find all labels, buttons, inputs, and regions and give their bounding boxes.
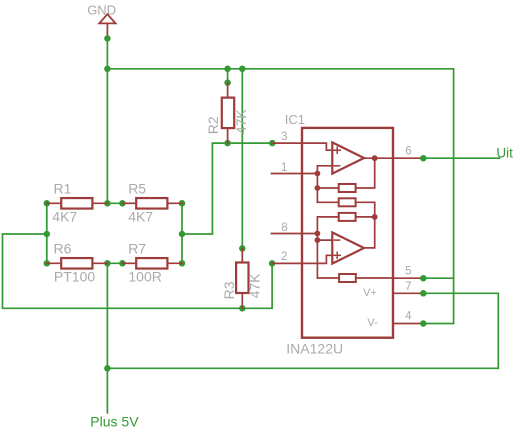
svg-text:R3: R3 xyxy=(221,281,237,299)
junction bridge top right xyxy=(179,200,186,207)
junction top rail R2 branch xyxy=(224,66,231,73)
svg-text:8: 8 xyxy=(281,222,287,234)
junction pin 7 xyxy=(420,290,427,297)
wire R2 top branch xyxy=(227,69,229,83)
junction bridge bottom mid-right xyxy=(119,260,126,267)
junction top rail left xyxy=(104,66,111,73)
wire R2 bottom to pin 3 xyxy=(228,142,273,144)
wire bridge right to pin 3 net xyxy=(182,143,228,234)
internal resistor 3 xyxy=(339,213,356,221)
svg-text:V-: V- xyxy=(367,317,378,329)
junction pin 4 xyxy=(420,320,427,327)
wire pin 6 output Uit xyxy=(423,157,499,159)
wire GND to top rail xyxy=(106,37,108,69)
resistor R3 xyxy=(221,248,262,308)
junction bridge top left xyxy=(44,200,51,207)
internal resistor 1 xyxy=(339,184,356,192)
resistor R5 xyxy=(122,181,182,225)
junction pin 2 xyxy=(269,260,276,267)
svg-text:7: 7 xyxy=(405,281,411,293)
svg-text:1: 1 xyxy=(281,162,287,174)
svg-text:4K7: 4K7 xyxy=(128,209,153,225)
junction bridge top mid-right xyxy=(119,200,126,207)
wire internal resistor 3 to node B xyxy=(317,217,338,234)
svg-text:PT100: PT100 xyxy=(54,269,95,285)
svg-text:2: 2 xyxy=(281,251,287,263)
pin 2 stub xyxy=(272,262,302,264)
wire R3 bottom to pin 2 xyxy=(242,263,272,308)
svg-text:R5: R5 xyxy=(128,181,146,197)
internal resistor 4 xyxy=(339,274,356,282)
wire pin2 jog to +in B xyxy=(302,255,332,263)
wire R3 column xyxy=(241,69,243,249)
junction pin 5 xyxy=(420,275,427,282)
wire bridge left vertical xyxy=(46,203,48,263)
junction bridge left mid xyxy=(44,231,51,238)
wire node A down to internal resistor 2 xyxy=(317,188,338,202)
IC IC1 box xyxy=(285,112,393,356)
internal resistor 2 xyxy=(339,198,356,206)
pin 3 stub xyxy=(272,142,302,144)
wire feedback A xyxy=(356,158,375,188)
junction on GND wire xyxy=(104,35,111,42)
junction bridge top mid-left xyxy=(104,200,111,207)
svg-text:5: 5 xyxy=(405,266,411,278)
junction bridge right mid xyxy=(179,231,186,238)
pin 5 stub xyxy=(394,277,424,279)
wire right vertical from top rail to pin 4 xyxy=(423,69,453,324)
wire pin3 jog to +in A xyxy=(302,143,332,150)
wire +5V column xyxy=(106,263,108,413)
op-amp IC1 B xyxy=(332,232,364,263)
node A junction 2 xyxy=(315,185,321,191)
resistor R6 xyxy=(47,241,108,285)
wire node A link down xyxy=(316,174,318,189)
node B junction 2 xyxy=(315,237,321,243)
wire bridge bottom middle xyxy=(107,262,122,264)
junction pin 3 xyxy=(269,140,276,147)
wire node C to output B xyxy=(364,217,375,248)
pin 8 stub xyxy=(272,233,318,235)
wire internal resistor 4 to pin 5 xyxy=(356,277,394,279)
wire node B to internal resistor 4 xyxy=(317,240,339,278)
wire node B to -in B xyxy=(317,239,332,241)
op-amp IC1 A xyxy=(332,142,364,173)
junction R3 bottom xyxy=(239,305,246,312)
pin 4 stub xyxy=(394,323,424,325)
svg-text:4K7: 4K7 xyxy=(52,209,77,225)
svg-text:R2: R2 xyxy=(205,116,221,134)
junction pin 6 xyxy=(420,155,427,162)
wire top rail xyxy=(107,68,453,70)
wire left branch to R3 bottom xyxy=(3,234,243,308)
svg-text:IC1: IC1 xyxy=(285,112,305,127)
junction top rail R3 branch xyxy=(239,66,246,73)
pin 1 stub xyxy=(272,173,318,175)
svg-text:R1: R1 xyxy=(54,181,72,197)
svg-text:Plus 5V: Plus 5V xyxy=(90,414,139,430)
wire pin 7 to +5V rail xyxy=(107,293,498,368)
pin 6 stub xyxy=(394,157,424,159)
node B junction 1 xyxy=(315,231,321,237)
junction bridge bottom left xyxy=(44,260,51,267)
junction R3 top xyxy=(239,245,246,252)
wire GND column to bridge xyxy=(106,69,108,204)
wire internal resistor 2 to node C xyxy=(356,202,375,217)
junction bridge bottom right xyxy=(179,260,186,267)
svg-text:47K: 47K xyxy=(233,109,249,135)
wire bridge top middle xyxy=(107,202,122,204)
wire internal resistor 3 right xyxy=(356,216,375,218)
svg-text:Uit: Uit xyxy=(496,146,513,161)
wire node B link down xyxy=(316,234,318,241)
svg-text:100R: 100R xyxy=(128,269,161,285)
wire node A to -in A xyxy=(317,166,332,174)
node C junction xyxy=(372,214,378,220)
svg-text:6: 6 xyxy=(405,145,411,157)
ground GND xyxy=(87,2,116,37)
junction bridge bottom mid-left xyxy=(104,260,111,267)
resistor R7 xyxy=(122,241,182,285)
svg-text:4: 4 xyxy=(405,311,412,323)
svg-text:R6: R6 xyxy=(54,241,72,257)
svg-text:GND: GND xyxy=(87,2,116,17)
svg-text:R7: R7 xyxy=(128,241,146,257)
wire output A xyxy=(364,157,394,159)
pin 7 stub xyxy=(394,292,424,294)
resistor R1 xyxy=(47,181,108,225)
svg-text:V+: V+ xyxy=(363,287,377,299)
junction +5V rail xyxy=(104,365,111,372)
svg-text:INA122U: INA122U xyxy=(286,341,343,357)
wire node A to internal resistor 1 xyxy=(317,187,338,189)
junction R2 bottom xyxy=(224,140,231,147)
junction R2 top xyxy=(224,79,231,86)
node A junction 1 xyxy=(315,171,321,177)
resistor R2 xyxy=(205,83,249,143)
wire bridge right vertical xyxy=(181,203,183,263)
svg-text:3: 3 xyxy=(281,131,287,143)
svg-text:47K: 47K xyxy=(247,273,263,299)
node output A junction xyxy=(372,155,378,161)
wire pin 5 to right vertical xyxy=(423,277,453,279)
